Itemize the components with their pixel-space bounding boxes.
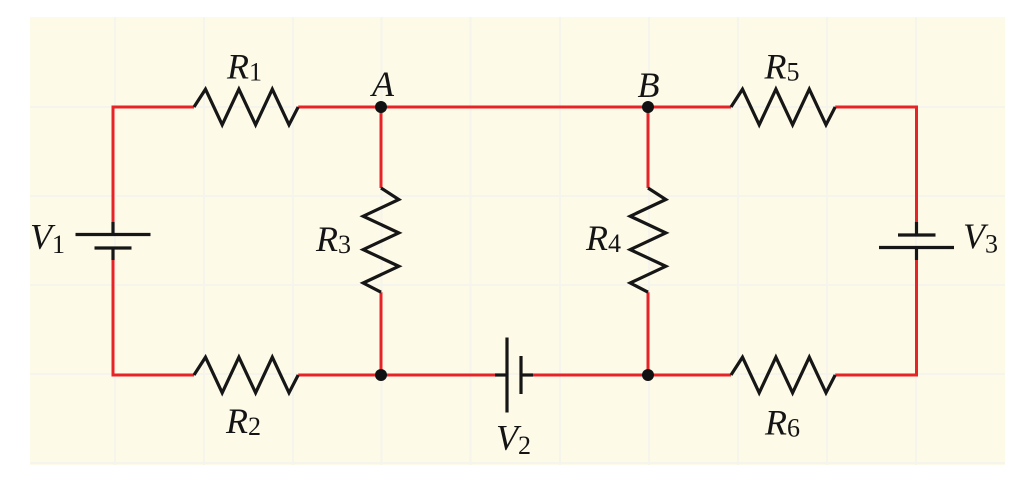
- svg-text:A: A: [370, 64, 395, 104]
- wire: R1 to node A: [298, 106, 381, 109]
- wire: V3 bottom to right bottom corner to R6: [835, 260, 916, 375]
- wire: V2 left to node A bottom: [381, 374, 495, 377]
- wire: node B to R4 top: [647, 107, 650, 188]
- battery V1: [76, 222, 151, 260]
- node A junction dot: [375, 101, 387, 113]
- wire: R3 bottom to node A bottom: [380, 292, 383, 375]
- resistor R3: [363, 188, 399, 292]
- wire: node A to R3 top: [380, 107, 383, 188]
- wire: left top corner (V1 top to R1): [113, 107, 194, 222]
- wire: node A bottom to R2: [298, 374, 381, 377]
- wire: R2 to left bottom corner to V1 bottom: [113, 260, 194, 375]
- resistor R5: [731, 89, 835, 125]
- resistor R1: [194, 89, 298, 125]
- wire: node A to node B: [381, 106, 648, 109]
- wire: R5 to right top corner to V3 top: [835, 107, 916, 222]
- junction dot below A: [375, 369, 387, 381]
- wire: node B bottom to V2 right: [533, 374, 648, 377]
- resistor R6: [731, 357, 835, 393]
- battery V2: [495, 338, 533, 413]
- svg-text:B: B: [638, 65, 660, 105]
- junction dot below B: [642, 369, 654, 381]
- battery V3: [879, 222, 954, 260]
- resistor R2: [194, 357, 298, 393]
- resistor R4: [630, 188, 666, 292]
- wire: node B to R5: [648, 106, 731, 109]
- wire: R4 bottom to node B bottom: [647, 292, 650, 375]
- node B junction dot: [642, 101, 654, 113]
- wire: R6 to node B bottom: [648, 374, 731, 377]
